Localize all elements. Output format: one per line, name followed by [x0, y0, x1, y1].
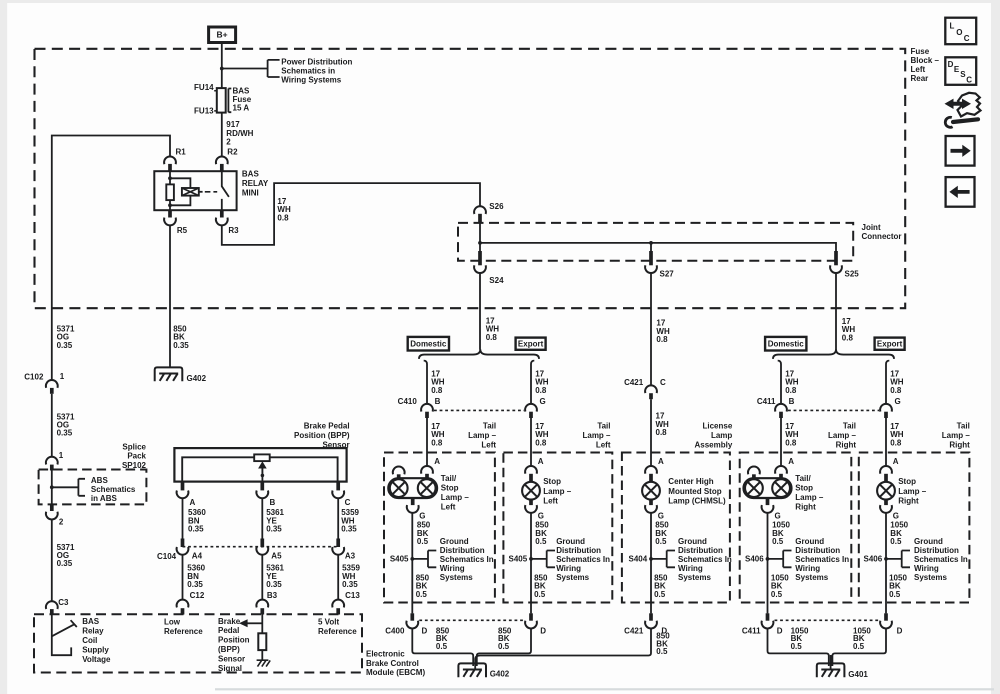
svg-text:Systems: Systems — [556, 573, 589, 582]
svg-text:1: 1 — [60, 372, 65, 381]
svg-text:0.8: 0.8 — [535, 438, 547, 447]
svg-text:(BPP): (BPP) — [218, 645, 240, 654]
svg-text:Supply: Supply — [82, 646, 109, 655]
svg-text:0.35: 0.35 — [266, 580, 282, 589]
svg-text:Wiring: Wiring — [678, 564, 703, 573]
svg-text:0.35: 0.35 — [57, 341, 73, 350]
svg-text:Wiring Systems: Wiring Systems — [281, 75, 341, 84]
svg-text:Mounted Stop: Mounted Stop — [668, 487, 721, 496]
svg-text:Stop: Stop — [441, 484, 459, 493]
svg-text:A: A — [658, 457, 664, 466]
svg-text:0.5: 0.5 — [534, 590, 546, 599]
svg-text:L: L — [950, 21, 955, 30]
svg-text:S24: S24 — [489, 276, 504, 285]
svg-text:1: 1 — [59, 451, 64, 460]
svg-text:0.5: 0.5 — [656, 647, 668, 656]
svg-text:0.8: 0.8 — [431, 438, 443, 447]
svg-text:Brake Control: Brake Control — [366, 659, 419, 668]
svg-text:Left: Left — [596, 440, 611, 449]
svg-text:D: D — [948, 60, 954, 69]
svg-text:0.35: 0.35 — [341, 525, 357, 534]
svg-text:Ground: Ground — [440, 537, 469, 546]
svg-text:B: B — [270, 498, 276, 507]
svg-text:0.35: 0.35 — [188, 525, 204, 534]
svg-text:Wiring: Wiring — [795, 564, 820, 573]
svg-text:G: G — [419, 511, 425, 520]
svg-text:Tail: Tail — [957, 421, 970, 430]
svg-text:C: C — [966, 76, 972, 85]
svg-text:Lamp (CHMSL): Lamp (CHMSL) — [668, 496, 726, 505]
svg-text:Lamp –: Lamp – — [468, 431, 497, 440]
svg-text:Lamp: Lamp — [711, 431, 732, 440]
svg-text:Lamp –: Lamp – — [543, 487, 572, 496]
svg-text:0.5: 0.5 — [498, 642, 510, 651]
svg-text:Distribution: Distribution — [440, 546, 485, 555]
svg-text:Schematics In: Schematics In — [556, 555, 610, 564]
svg-text:B: B — [789, 397, 795, 406]
svg-text:0.5: 0.5 — [417, 537, 429, 546]
svg-text:0.8: 0.8 — [431, 386, 443, 395]
svg-text:Relay: Relay — [82, 626, 104, 635]
svg-text:D: D — [897, 626, 903, 635]
svg-text:G: G — [538, 511, 544, 520]
svg-text:Position: Position — [218, 636, 250, 645]
svg-text:Coil: Coil — [82, 636, 97, 645]
svg-text:Lamp –: Lamp – — [942, 431, 971, 440]
svg-text:R3: R3 — [228, 226, 239, 235]
svg-text:0.5: 0.5 — [436, 642, 448, 651]
svg-text:Pack: Pack — [127, 452, 146, 461]
svg-text:Left: Left — [911, 65, 926, 74]
svg-text:Systems: Systems — [914, 573, 947, 582]
svg-text:0.8: 0.8 — [785, 438, 797, 447]
svg-text:0.5: 0.5 — [535, 537, 547, 546]
svg-text:0.35: 0.35 — [266, 525, 282, 534]
svg-text:C: C — [660, 378, 666, 387]
svg-text:S406: S406 — [864, 554, 883, 563]
svg-text:Splice: Splice — [122, 442, 146, 451]
svg-text:Stop: Stop — [543, 477, 561, 486]
svg-text:Reference: Reference — [318, 627, 357, 636]
svg-text:Brake Pedal: Brake Pedal — [304, 421, 350, 430]
svg-text:Power Distribution: Power Distribution — [281, 57, 352, 66]
svg-text:Reference: Reference — [164, 627, 203, 636]
svg-text:0.5: 0.5 — [416, 590, 428, 599]
svg-text:Lamp –: Lamp – — [795, 493, 824, 502]
svg-text:Systems: Systems — [795, 573, 828, 582]
svg-text:S26: S26 — [489, 202, 504, 211]
svg-text:Domestic: Domestic — [410, 340, 447, 349]
svg-text:G: G — [540, 397, 546, 406]
svg-text:R1: R1 — [176, 148, 187, 157]
svg-text:S25: S25 — [845, 270, 860, 279]
svg-text:Right: Right — [795, 503, 816, 512]
svg-text:C421: C421 — [624, 378, 644, 387]
svg-text:Systems: Systems — [440, 573, 473, 582]
svg-text:S27: S27 — [660, 270, 675, 279]
svg-text:A3: A3 — [345, 552, 356, 561]
svg-text:0.5: 0.5 — [771, 590, 783, 599]
svg-text:0.5: 0.5 — [853, 642, 865, 651]
svg-text:FU14: FU14 — [194, 83, 214, 92]
svg-text:Right: Right — [836, 440, 857, 449]
svg-text:0.5: 0.5 — [654, 590, 666, 599]
svg-text:Wiring: Wiring — [556, 564, 581, 573]
svg-text:Rear: Rear — [911, 74, 929, 83]
svg-text:Lamp –: Lamp – — [828, 431, 857, 440]
svg-text:G402: G402 — [187, 374, 207, 383]
svg-text:Schematics In: Schematics In — [795, 555, 849, 564]
svg-text:Stop: Stop — [795, 484, 813, 493]
svg-text:Module (EBCM): Module (EBCM) — [366, 668, 425, 677]
svg-text:0.8: 0.8 — [535, 386, 547, 395]
svg-text:Right: Right — [898, 496, 919, 505]
svg-text:Systems: Systems — [678, 573, 711, 582]
svg-text:Low: Low — [164, 618, 181, 627]
svg-text:Tail/: Tail/ — [441, 474, 457, 483]
svg-text:0.8: 0.8 — [277, 213, 289, 222]
svg-text:S405: S405 — [509, 554, 528, 563]
svg-text:0.35: 0.35 — [173, 341, 189, 350]
svg-text:0.5: 0.5 — [889, 590, 901, 599]
svg-text:0.5: 0.5 — [772, 537, 784, 546]
svg-text:G402: G402 — [490, 670, 510, 679]
svg-text:C411: C411 — [757, 397, 776, 406]
svg-text:Schematics In: Schematics In — [440, 555, 494, 564]
svg-text:Distribution: Distribution — [556, 546, 601, 555]
svg-text:G: G — [658, 511, 664, 520]
svg-text:O: O — [956, 28, 962, 37]
svg-text:5 Volt: 5 Volt — [318, 618, 340, 627]
svg-text:S405: S405 — [390, 554, 409, 563]
svg-text:Fuse: Fuse — [911, 47, 930, 56]
svg-text:D: D — [540, 626, 546, 635]
svg-text:Schematics In: Schematics In — [914, 555, 968, 564]
svg-text:Distribution: Distribution — [914, 546, 959, 555]
svg-text:C3: C3 — [58, 598, 69, 607]
svg-text:C: C — [345, 498, 351, 507]
svg-text:A: A — [788, 457, 794, 466]
svg-text:0.5: 0.5 — [791, 642, 803, 651]
svg-text:Sensor: Sensor — [218, 654, 245, 663]
svg-text:A4: A4 — [192, 552, 203, 561]
svg-text:0.35: 0.35 — [187, 580, 203, 589]
svg-text:Left: Left — [481, 440, 496, 449]
svg-text:FU13: FU13 — [194, 107, 214, 116]
svg-text:Electronic: Electronic — [366, 650, 405, 659]
svg-text:D: D — [777, 626, 783, 635]
svg-text:C410: C410 — [398, 397, 418, 406]
svg-text:S406: S406 — [745, 554, 764, 563]
svg-text:A: A — [893, 457, 899, 466]
svg-text:0.8: 0.8 — [656, 428, 668, 437]
svg-text:C400: C400 — [385, 626, 405, 635]
svg-text:B: B — [435, 397, 441, 406]
svg-text:C421: C421 — [624, 626, 644, 635]
svg-text:Signal: Signal — [218, 664, 242, 673]
svg-text:Distribution: Distribution — [795, 546, 840, 555]
svg-text:Ground: Ground — [795, 537, 824, 546]
svg-text:Ground: Ground — [556, 537, 585, 546]
svg-text:E: E — [954, 65, 960, 74]
svg-text:ABS: ABS — [91, 476, 109, 485]
svg-text:0.8: 0.8 — [486, 333, 498, 342]
svg-text:Tail/: Tail/ — [795, 474, 811, 483]
svg-text:S: S — [960, 70, 966, 79]
svg-text:A5: A5 — [271, 552, 282, 561]
svg-text:Lamp –: Lamp – — [441, 493, 470, 502]
svg-text:Schematics In: Schematics In — [678, 555, 732, 564]
svg-text:Block –: Block – — [911, 56, 940, 65]
svg-text:Connector: Connector — [862, 232, 902, 241]
svg-text:Brake: Brake — [218, 617, 241, 626]
svg-text:BAS: BAS — [242, 170, 260, 179]
svg-text:Export: Export — [518, 339, 544, 348]
svg-text:Export: Export — [877, 339, 903, 348]
svg-text:Ground: Ground — [678, 537, 707, 546]
svg-text:2: 2 — [59, 517, 64, 526]
svg-text:0.35: 0.35 — [57, 429, 73, 438]
svg-text:C104: C104 — [157, 552, 177, 561]
svg-text:0.8: 0.8 — [785, 386, 797, 395]
svg-text:SP102: SP102 — [122, 461, 147, 470]
svg-text:G: G — [775, 511, 781, 520]
svg-text:Assembly: Assembly — [695, 440, 733, 449]
svg-text:Tail: Tail — [597, 421, 610, 430]
svg-text:D: D — [422, 626, 428, 635]
svg-text:RELAY: RELAY — [242, 179, 269, 188]
svg-text:0.35: 0.35 — [342, 580, 358, 589]
svg-text:0.8: 0.8 — [842, 333, 854, 342]
svg-text:C411: C411 — [742, 626, 761, 635]
svg-text:G: G — [893, 511, 899, 520]
svg-text:B3: B3 — [267, 591, 278, 600]
svg-text:Left: Left — [441, 503, 456, 512]
svg-text:Domestic: Domestic — [768, 340, 805, 349]
svg-text:0.5: 0.5 — [655, 537, 667, 546]
svg-text:C: C — [964, 34, 970, 43]
svg-text:15 A: 15 A — [233, 103, 250, 112]
svg-text:Tail: Tail — [483, 421, 496, 430]
svg-text:Tail: Tail — [843, 421, 856, 430]
svg-text:Schematics in: Schematics in — [281, 66, 335, 75]
svg-text:Right: Right — [949, 440, 970, 449]
svg-text:Lamp –: Lamp – — [898, 487, 927, 496]
svg-text:Voltage: Voltage — [82, 655, 111, 664]
svg-text:Center High: Center High — [668, 477, 713, 486]
svg-text:A: A — [538, 457, 544, 466]
svg-text:Wiring: Wiring — [440, 564, 465, 573]
svg-text:Joint: Joint — [862, 223, 881, 232]
svg-text:Lamp –: Lamp – — [582, 431, 611, 440]
svg-text:0.35: 0.35 — [57, 559, 73, 568]
svg-text:0.8: 0.8 — [890, 438, 902, 447]
svg-text:Left: Left — [543, 496, 558, 505]
svg-text:0.8: 0.8 — [656, 335, 668, 344]
svg-text:C102: C102 — [24, 373, 44, 382]
svg-text:A: A — [434, 457, 440, 466]
svg-text:0.8: 0.8 — [890, 386, 902, 395]
svg-text:Stop: Stop — [898, 477, 916, 486]
svg-text:in ABS: in ABS — [91, 494, 118, 503]
svg-text:Position (BPP): Position (BPP) — [294, 431, 350, 440]
svg-text:B+: B+ — [217, 30, 228, 40]
svg-text:R2: R2 — [227, 148, 238, 157]
svg-text:G: G — [895, 397, 901, 406]
svg-text:License: License — [703, 421, 733, 430]
svg-text:Wiring: Wiring — [914, 564, 939, 573]
svg-text:MINI: MINI — [242, 188, 259, 197]
svg-text:C13: C13 — [345, 591, 360, 600]
svg-text:0.5: 0.5 — [890, 537, 902, 546]
svg-text:Distribution: Distribution — [678, 546, 723, 555]
svg-text:C12: C12 — [190, 591, 205, 600]
svg-text:Ground: Ground — [914, 537, 943, 546]
svg-text:Pedal: Pedal — [218, 626, 239, 635]
svg-text:G401: G401 — [848, 670, 868, 679]
svg-text:R5: R5 — [177, 226, 188, 235]
svg-text:S404: S404 — [629, 554, 648, 563]
svg-text:Schematics: Schematics — [91, 485, 136, 494]
svg-text:BAS: BAS — [82, 617, 100, 626]
svg-text:A: A — [190, 498, 196, 507]
svg-text:2: 2 — [226, 137, 231, 146]
